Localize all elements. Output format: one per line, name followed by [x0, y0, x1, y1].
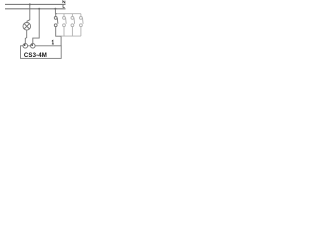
svg-text:CS3-4M: CS3-4M: [24, 52, 47, 59]
